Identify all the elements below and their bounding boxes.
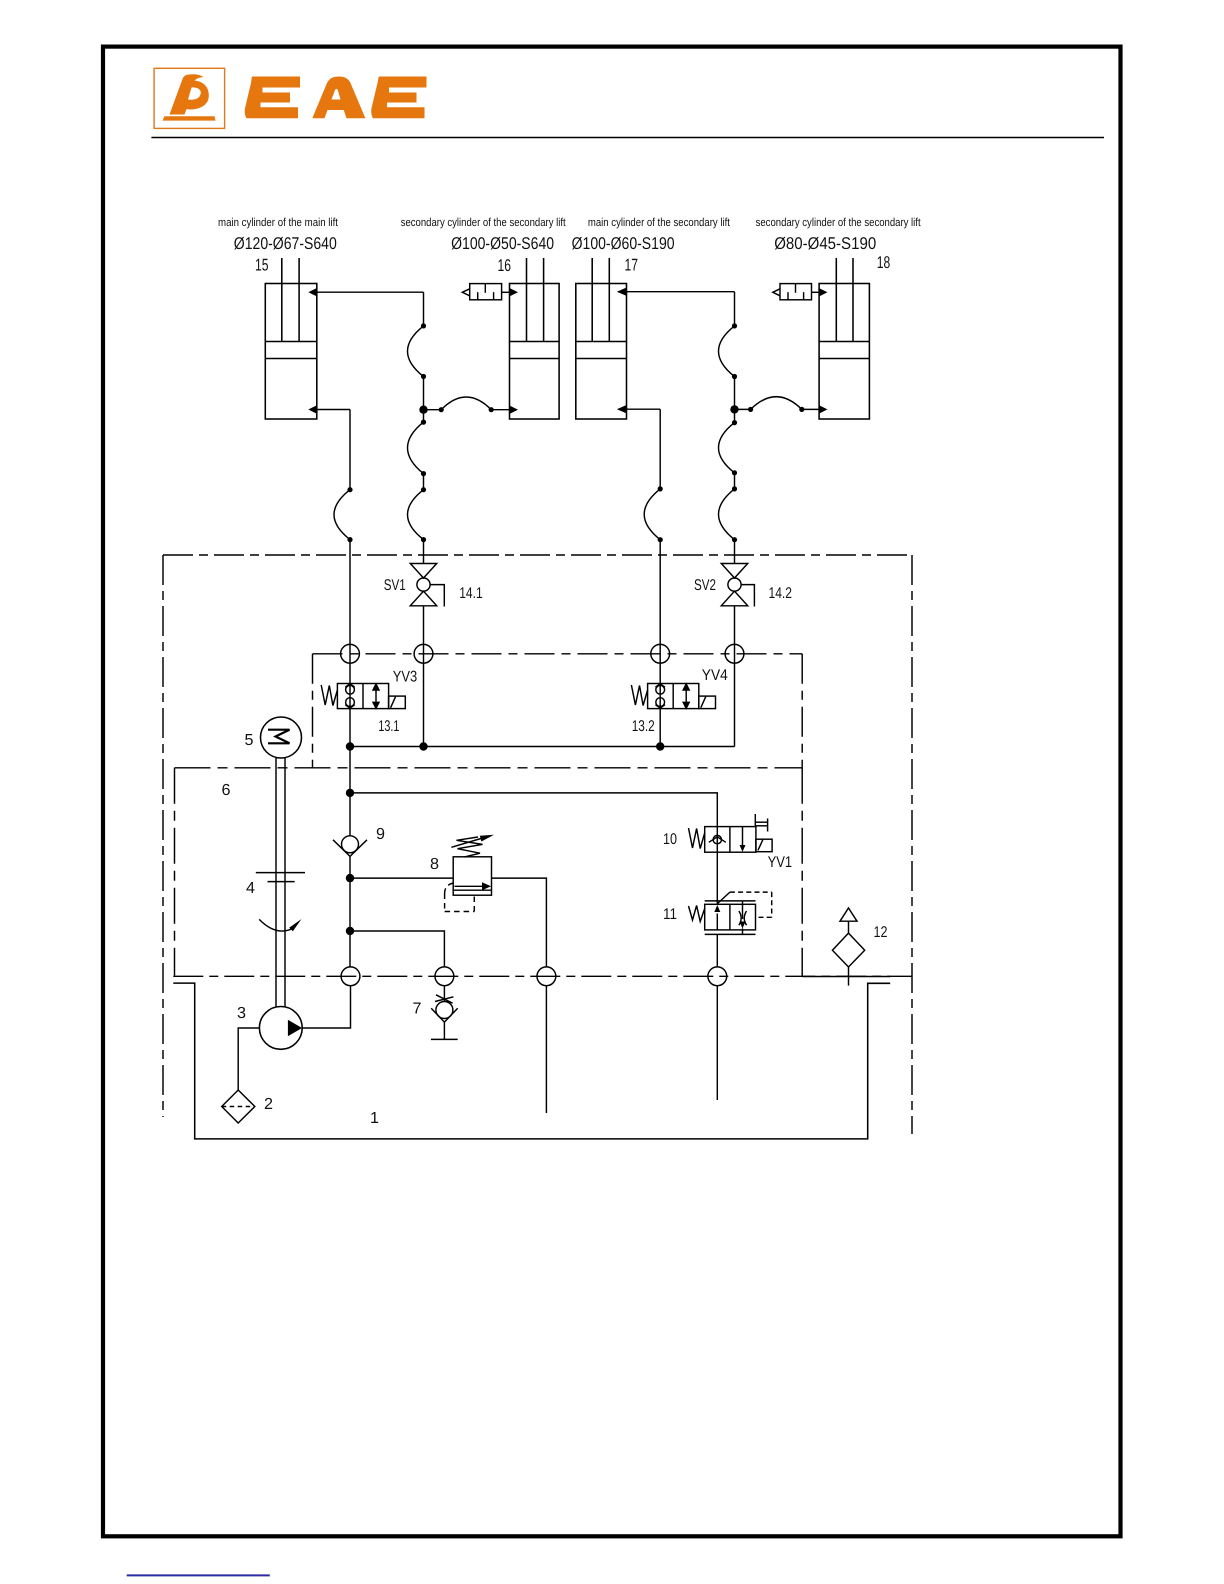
cylinder 18 rod bbox=[835, 258, 837, 342]
wire line A down to hose bbox=[423, 292, 425, 326]
hose arc F bbox=[334, 490, 350, 540]
pump discharge line bbox=[302, 986, 350, 1029]
svg-text:13.2: 13.2 bbox=[632, 718, 655, 735]
svg-text:1: 1 bbox=[370, 1110, 379, 1127]
wire line F down bbox=[349, 410, 351, 490]
wire bbox=[734, 377, 736, 410]
wire bbox=[423, 474, 425, 490]
wire junction to hose H bbox=[735, 408, 751, 410]
svg-text:16: 16 bbox=[498, 256, 512, 275]
port arrow into cylinder 17 bottom bbox=[617, 405, 627, 413]
wire line J down bbox=[659, 409, 661, 489]
relief valve 8 bbox=[445, 835, 494, 912]
svg-text:12: 12 bbox=[874, 924, 888, 941]
port circle pump line bbox=[341, 967, 360, 986]
svg-text:7: 7 bbox=[413, 1001, 422, 1018]
breather check valve 7 bbox=[431, 986, 458, 1040]
wire through valve10 to valve11 bbox=[716, 827, 718, 905]
wire hose H to cyl18 bbox=[802, 408, 820, 410]
valve 7 branch line bbox=[350, 931, 444, 967]
svg-text:Ø80-Ø45-S190: Ø80-Ø45-S190 bbox=[774, 234, 876, 253]
throttle orifice at cylinder 16 bbox=[462, 284, 509, 300]
cylinder 16 piston bbox=[510, 341, 560, 343]
motor M 5 bbox=[261, 717, 302, 758]
svg-text:18: 18 bbox=[877, 253, 891, 272]
svg-text:5: 5 bbox=[245, 732, 254, 749]
shut-off valve SV2 14.2 bbox=[721, 564, 754, 607]
port arrow into cylinder 18 top bbox=[819, 288, 827, 296]
wire bbox=[734, 473, 736, 489]
svg-text:6: 6 bbox=[222, 782, 231, 799]
check valve 9 bbox=[333, 836, 367, 857]
EAE logo glyph bbox=[163, 74, 216, 120]
hose arc J bbox=[644, 489, 660, 540]
svg-text:Ø100-Ø50-S640: Ø100-Ø50-S640 bbox=[451, 234, 554, 253]
svg-text:secondary cylinder of the seco: secondary cylinder of the secondary lift bbox=[401, 217, 567, 229]
relief valve 8 outlet line bbox=[492, 878, 547, 967]
cylinder 15 piston bbox=[265, 341, 317, 343]
EAE logo box bbox=[154, 68, 225, 128]
wire to SV1 bbox=[423, 540, 425, 564]
header rule bbox=[151, 137, 1104, 139]
svg-text:secondary cylinder of the seco: secondary cylinder of the secondary lift bbox=[756, 217, 922, 229]
svg-text:Ø120-Ø67-S640: Ø120-Ø67-S640 bbox=[234, 234, 337, 253]
pump 3 bbox=[259, 1007, 302, 1050]
wire SV1 to port bbox=[423, 606, 425, 747]
bus junction line bbox=[350, 746, 660, 748]
wire hose B to cyl16 bbox=[491, 409, 510, 411]
svg-text:15: 15 bbox=[255, 256, 269, 275]
tank boundary dash-dot line bbox=[173, 975, 912, 977]
solenoid valve 13.2 YV4 bbox=[631, 684, 715, 709]
wire J to YV4 bbox=[659, 540, 661, 747]
hose arc I1 bbox=[719, 423, 735, 473]
wire cyl15 bottom to line F bbox=[310, 409, 350, 411]
port arrow into cylinder 17 top bbox=[617, 288, 627, 296]
wire cyl17 bottom to line J bbox=[618, 408, 660, 410]
cylinder 18 body bbox=[819, 284, 869, 420]
junction dot bus YV3 bbox=[346, 742, 354, 750]
svg-text:main cylinder of the main lift: main cylinder of the main lift bbox=[218, 217, 339, 229]
port arrow into cylinder 16 bottom bbox=[510, 406, 519, 414]
hose arc B (to cyl16 bottom) bbox=[441, 397, 491, 410]
wire cyl17 top to line G bbox=[618, 291, 735, 293]
cylinder 17 body bbox=[576, 284, 627, 420]
svg-text:SV1: SV1 bbox=[384, 577, 406, 594]
wire junction to hose B bbox=[424, 409, 442, 411]
svg-text:10: 10 bbox=[663, 831, 677, 848]
relief drain into tank bbox=[545, 986, 547, 1114]
svg-text:3: 3 bbox=[237, 1005, 246, 1022]
junction dot right manifold bbox=[730, 405, 738, 413]
junction dot supply tee bbox=[346, 789, 354, 797]
svg-text:13.1: 13.1 bbox=[378, 718, 399, 735]
hose arc A1 bbox=[408, 326, 424, 377]
unloader drain into tank bbox=[716, 986, 718, 1101]
hose arc H (to cyl18 bottom) bbox=[751, 397, 802, 410]
air breather 12 bbox=[832, 908, 864, 986]
wire F to YV3 bbox=[349, 540, 351, 747]
tank 1 outline bbox=[173, 977, 890, 1139]
cylinder 17 rod bbox=[591, 258, 593, 342]
hose dots bbox=[347, 323, 804, 542]
cylinder 16 rod bbox=[526, 258, 528, 342]
svg-text:YV4: YV4 bbox=[702, 667, 728, 684]
svg-text:main cylinder of the secondary: main cylinder of the secondary lift bbox=[588, 217, 731, 229]
hose arc C2 bbox=[408, 490, 424, 540]
cylinder 15 rod bbox=[281, 258, 283, 342]
svg-text:Ø100-Ø60-S190: Ø100-Ø60-S190 bbox=[572, 234, 675, 253]
wire line G down bbox=[734, 292, 736, 326]
throttle orifice at cylinder 18 bbox=[773, 284, 819, 300]
svg-text:YV3: YV3 bbox=[393, 669, 418, 686]
port circle SV2 line bbox=[725, 644, 744, 663]
cylinder 17 piston bbox=[576, 341, 627, 343]
footer blue line bbox=[127, 1574, 270, 1576]
cylinder 16 body bbox=[510, 284, 560, 420]
EAE logo text bbox=[245, 77, 427, 119]
svg-text:11: 11 bbox=[663, 906, 677, 923]
cylinder 15 body bbox=[265, 284, 317, 420]
svg-text:9: 9 bbox=[376, 826, 385, 843]
svg-text:14.1: 14.1 bbox=[459, 585, 483, 602]
hose arc G1 bbox=[719, 326, 735, 377]
wire cyl15 top to line A bbox=[310, 291, 424, 293]
junction dot valve7 tee bbox=[346, 927, 354, 935]
junction dot bus SV1 bbox=[419, 742, 427, 750]
cylinder 18 piston bbox=[819, 341, 869, 343]
supply line to unloading valve 10 bbox=[350, 793, 717, 827]
wire SV2 to port bbox=[734, 606, 736, 747]
port circle valve7 line bbox=[435, 967, 454, 986]
page border frame bbox=[103, 47, 1121, 1537]
wire SV2 drain to bus bbox=[660, 746, 734, 748]
junction dot bus YV4 bbox=[656, 742, 664, 750]
port circle SV1 line bbox=[414, 644, 433, 663]
relief valve 8 inlet line bbox=[350, 877, 453, 879]
outer enclosure dash-dot boundary bbox=[163, 555, 912, 1134]
shut-off valve SV1 14.1 bbox=[410, 564, 444, 607]
port circle unloader drain line bbox=[708, 967, 727, 986]
unloader drain line bbox=[716, 934, 718, 967]
svg-text:YV1: YV1 bbox=[768, 854, 793, 871]
wire junction down bbox=[734, 409, 736, 422]
port arrow into cylinder 18 bottom bbox=[819, 405, 827, 413]
wire hose to junction bbox=[423, 377, 425, 410]
junction dot left manifold bbox=[419, 406, 427, 414]
rotation direction arrow bbox=[259, 919, 301, 931]
port circle relief drain line bbox=[537, 967, 556, 986]
unloading valve 10 YV1 bbox=[689, 814, 773, 852]
flow control valve 11 bbox=[689, 892, 772, 934]
hose arc C1 bbox=[408, 422, 424, 474]
port circle YV3 line bbox=[341, 644, 360, 663]
hose arc I2 bbox=[719, 489, 735, 540]
port arrow into cylinder 15 top bbox=[308, 288, 317, 296]
pump suction line bbox=[238, 1028, 259, 1090]
wire junction down bbox=[423, 410, 425, 422]
svg-text:4: 4 bbox=[246, 880, 255, 897]
solenoid valve 13.1 YV3 bbox=[321, 684, 405, 709]
wire to SV2 bbox=[734, 540, 736, 564]
port circle YV4 line bbox=[651, 644, 670, 663]
coupling 4 bbox=[256, 873, 305, 882]
svg-text:8: 8 bbox=[430, 856, 439, 873]
svg-text:2: 2 bbox=[264, 1096, 273, 1113]
svg-text:14.2: 14.2 bbox=[769, 585, 793, 602]
power unit 6 dashed box bbox=[175, 768, 803, 977]
motor-pump shaft bbox=[276, 758, 285, 1007]
svg-text:17: 17 bbox=[625, 256, 639, 275]
pressure line port to bus bbox=[349, 856, 351, 967]
port arrow into cylinder 16 top bbox=[510, 288, 519, 296]
svg-text:SV2: SV2 bbox=[694, 577, 716, 594]
port arrow into cylinder 15 bottom bbox=[308, 405, 317, 413]
wire check9 to bus dot bbox=[349, 747, 351, 836]
suction filter 2 bbox=[222, 1090, 255, 1123]
manifold 13.x dashed box bbox=[313, 654, 803, 768]
junction dot relief tee bbox=[346, 874, 354, 882]
